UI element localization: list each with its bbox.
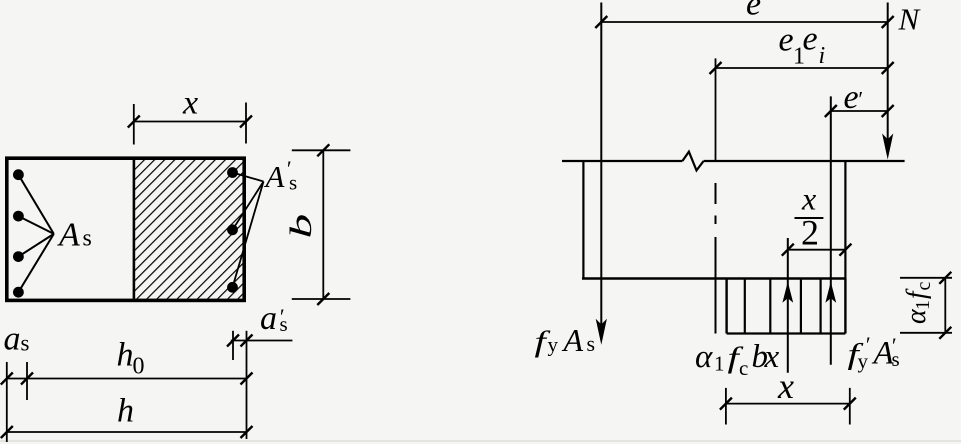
node label-a1fcbx <box>695 339 780 380</box>
wire column-bottom-line <box>582 277 845 280</box>
node label-h0 <box>117 336 145 379</box>
wire a's-dim extension lines <box>232 331 234 360</box>
node label-As <box>57 217 92 254</box>
wire x/2-dimension line <box>788 249 846 251</box>
wire N-force-line <box>887 3 889 155</box>
svg-text:1: 1 <box>912 300 934 310</box>
svg-text:c: c <box>739 356 748 380</box>
svg-text:a: a <box>260 300 277 337</box>
node label-f'yA's <box>848 332 900 373</box>
wire b-dimension line <box>322 150 324 299</box>
node rebar-As'-1 <box>227 167 238 178</box>
svg-text:x: x <box>801 181 816 217</box>
wire e1ei-dimension line <box>716 67 888 69</box>
node rebar-As-2 <box>13 211 24 222</box>
svg-text:x: x <box>182 85 198 122</box>
node label-a's <box>260 300 288 337</box>
node fyAs-arrowhead <box>596 319 607 345</box>
wire top-face line right part <box>704 160 905 162</box>
svg-text:a: a <box>4 320 21 357</box>
node label-e1ei <box>779 21 826 70</box>
svg-text:e: e <box>803 21 818 58</box>
wire stress-block-hatch-4 <box>819 279 821 334</box>
wire f'yA's-force-line <box>830 96 832 364</box>
svg-text:h: h <box>117 393 134 430</box>
wire top-face line left part <box>562 160 682 162</box>
wire a1fc extension lines <box>900 277 952 279</box>
wire a1fcbx-resultant-line <box>787 238 789 373</box>
wire h-dimension line <box>7 431 247 433</box>
wire leader-As-4 <box>18 234 53 292</box>
svg-text:A: A <box>57 217 80 254</box>
node rebar-As-1 <box>13 169 24 180</box>
wire bottom-dim extension lines <box>6 362 8 442</box>
wire leader-As'-2 <box>233 182 264 230</box>
node f'yA's-arrowhead <box>825 282 836 303</box>
node rebar-As'-2 <box>227 224 238 235</box>
svg-text:x: x <box>764 339 780 375</box>
svg-text:x: x <box>777 366 794 406</box>
wire a1fc-dimension line <box>944 278 946 333</box>
svg-text:s: s <box>83 226 92 252</box>
node compression-zone-hatch <box>134 160 243 299</box>
wire stress-block-hatch-2 <box>769 279 771 334</box>
svg-text:e: e <box>779 21 794 58</box>
svg-text:2: 2 <box>801 212 819 252</box>
svg-text:1: 1 <box>714 352 725 376</box>
node label-As' <box>264 156 298 194</box>
node label-as <box>4 320 30 357</box>
svg-text:s: s <box>587 331 596 356</box>
svg-text:e: e <box>746 0 761 23</box>
wire centroid-extension <box>715 58 717 161</box>
node section-outline <box>7 158 244 300</box>
svg-text:i: i <box>819 43 826 69</box>
wire <box>0 440 961 442</box>
svg-text:A: A <box>264 159 286 194</box>
svg-text:s: s <box>892 347 900 371</box>
svg-text:h: h <box>117 336 134 373</box>
wire column-left-edge <box>582 161 584 279</box>
svg-text:b: b <box>284 214 318 239</box>
wire stress-block-hatch-1 <box>744 279 746 334</box>
wire x-bottom extension lines <box>725 388 727 425</box>
wire x-dim extension lines <box>133 104 135 145</box>
svg-text:s: s <box>280 312 288 336</box>
node a1fcbx-arrowhead <box>782 282 793 303</box>
wire leader-As'-1 <box>233 173 264 182</box>
wire a's-dimension line <box>231 340 293 342</box>
wire leader-As-1 <box>18 175 53 234</box>
wire neutral-axis boundary <box>133 160 136 299</box>
wire leader-As-3 <box>18 234 53 257</box>
wire h0-as-dimension line <box>7 378 247 380</box>
wire centroid-dashdot <box>715 183 717 204</box>
wire stress-block-bottom <box>727 332 846 334</box>
wire column-right-edge <box>844 161 846 279</box>
svg-text:α: α <box>695 339 713 375</box>
wire e-dimension line <box>601 21 887 23</box>
svg-text:0: 0 <box>133 354 145 380</box>
wire stress-block-right-edge <box>844 279 846 334</box>
node rebar-As-3 <box>13 251 24 262</box>
svg-text:N: N <box>898 2 922 37</box>
wire break symbol <box>682 152 703 171</box>
wire stress-block-left-edge <box>725 279 727 334</box>
node label-a1fc <box>901 282 935 325</box>
svg-text:c: c <box>913 282 935 291</box>
wire fyAs-force-line <box>600 3 602 341</box>
node label-fyAs <box>535 322 596 358</box>
wire e'-dimension line <box>831 110 888 112</box>
svg-text:s: s <box>21 331 30 356</box>
wire x-dimension line <box>134 121 246 123</box>
svg-text:s: s <box>289 171 297 195</box>
node N-arrowhead <box>882 134 893 160</box>
wire b-dim extension lines <box>292 149 351 151</box>
svg-text:′: ′ <box>857 86 863 111</box>
wire stress-block-hatch-3 <box>800 279 802 334</box>
wire x-bottom-dimension line <box>726 403 850 405</box>
svg-text:y: y <box>548 333 559 357</box>
svg-text:y: y <box>858 349 869 373</box>
node rebar-As-4 <box>13 287 24 298</box>
node label-e' <box>844 79 864 116</box>
node rebar-As'-3 <box>227 282 238 293</box>
wire leader-As'-3 <box>233 182 264 288</box>
wire leader-As-2 <box>18 216 53 234</box>
svg-text:A: A <box>562 322 584 358</box>
